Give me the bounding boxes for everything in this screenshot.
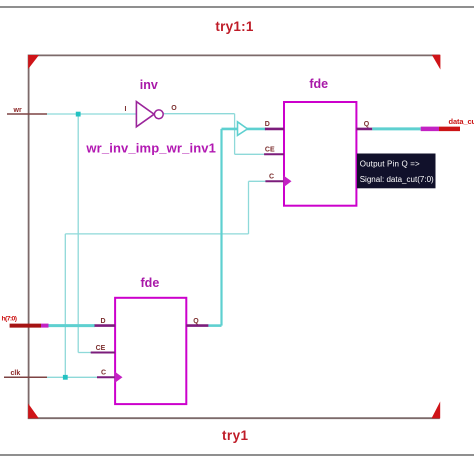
svg-text:fde: fde	[309, 77, 328, 91]
svg-text:D: D	[265, 121, 270, 128]
svg-text:try1:1: try1:1	[215, 19, 253, 34]
svg-text:C: C	[269, 173, 274, 180]
svg-text:O: O	[171, 105, 177, 112]
svg-text:wr_inv_imp_wr_inv1: wr_inv_imp_wr_inv1	[85, 141, 216, 156]
svg-text:try1: try1	[222, 428, 248, 443]
svg-text:C: C	[101, 370, 106, 377]
svg-text:h(7:0): h(7:0)	[2, 316, 18, 323]
svg-text:inv: inv	[140, 78, 158, 92]
svg-text:Signal: data_cut(7:0): Signal: data_cut(7:0)	[360, 175, 434, 184]
svg-text:clk: clk	[11, 370, 21, 377]
svg-text:Output Pin Q =>: Output Pin Q =>	[360, 160, 420, 169]
svg-text:CE: CE	[96, 345, 106, 352]
svg-text:fde: fde	[141, 276, 160, 290]
svg-text:data_cut: data_cut	[449, 117, 474, 126]
svg-text:wr: wr	[13, 107, 22, 114]
svg-text:I: I	[125, 106, 127, 113]
svg-text:CE: CE	[265, 146, 275, 153]
svg-text:Q: Q	[364, 121, 370, 128]
svg-text:Q: Q	[193, 318, 199, 325]
svg-text:D: D	[100, 318, 105, 325]
